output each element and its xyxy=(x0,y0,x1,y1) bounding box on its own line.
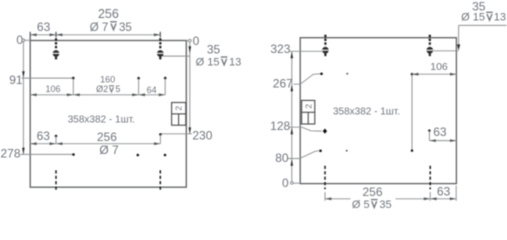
inner dim line xyxy=(30,94,165,96)
tick line 91 xyxy=(22,77,74,79)
origin tick line xyxy=(25,39,30,41)
svg-text:Ø 7: Ø 7 xyxy=(90,22,109,34)
svg-text:63: 63 xyxy=(437,185,451,199)
label dia15 depth13 right note xyxy=(461,12,506,24)
ext line row1 b xyxy=(138,78,140,95)
label dia5 depth35 xyxy=(352,199,392,211)
arrow 106 left xyxy=(30,93,36,96)
leader bolt2 to note xyxy=(163,55,190,57)
ext hole 256 bottom xyxy=(159,134,161,143)
hidden hole bottom right2 xyxy=(429,166,431,190)
ordinate line right panel xyxy=(291,51,293,181)
ext bottom r2 xyxy=(429,192,431,201)
arrow 64 left xyxy=(139,93,145,96)
ext link 106 holes xyxy=(411,74,413,150)
svg-text:35: 35 xyxy=(379,199,391,211)
arrow 63 left xyxy=(30,33,36,36)
blob arrow 128 xyxy=(291,128,294,135)
svg-text:256: 256 xyxy=(362,185,382,199)
ordinate line left xyxy=(22,42,24,155)
blob arrow 278 xyxy=(22,148,25,154)
svg-text:13: 13 xyxy=(494,12,506,24)
hole 63 bottom xyxy=(55,135,58,138)
svg-text:63: 63 xyxy=(37,129,51,143)
svg-text:Ø2: Ø2 xyxy=(96,84,108,94)
arrow 63 right xyxy=(50,33,56,36)
origin circle right xyxy=(189,39,192,42)
svg-text:106: 106 xyxy=(430,61,448,73)
tick line 230 xyxy=(160,133,192,135)
svg-text:256: 256 xyxy=(98,7,119,21)
hole 256 bottom right xyxy=(159,133,162,136)
leader 267 xyxy=(294,74,320,84)
svg-text:323: 323 xyxy=(270,42,290,56)
ext bottom r1 xyxy=(324,192,326,201)
svg-text:358x382 - 1шт.: 358x382 - 1шт. xyxy=(68,114,135,125)
arrow r63 right xyxy=(450,139,456,142)
label dia2 depth5 xyxy=(96,84,120,94)
svg-text:80: 80 xyxy=(275,151,289,165)
marker box right divider xyxy=(302,111,315,113)
note leader from bolt xyxy=(432,50,458,52)
svg-text:91: 91 xyxy=(9,73,23,87)
svg-text:2: 2 xyxy=(174,106,184,111)
panel outline right xyxy=(300,38,456,184)
arrow 106 right xyxy=(67,93,73,96)
note leader arrow xyxy=(457,44,460,50)
svg-text:0: 0 xyxy=(282,176,289,190)
bottom dim line right panel xyxy=(325,198,456,200)
note leader vertical xyxy=(458,25,460,44)
svg-text:230: 230 xyxy=(192,129,212,143)
ext line row1 a xyxy=(72,78,74,95)
panel outline left xyxy=(30,41,186,188)
top dimension line xyxy=(30,34,160,36)
svg-text:2: 2 xyxy=(303,104,313,109)
svg-text:278: 278 xyxy=(0,146,20,160)
extension tick bolt1 xyxy=(55,32,57,38)
svg-text:64: 64 xyxy=(147,85,157,95)
hole row3 right xyxy=(411,149,414,152)
bolt B2 left panel xyxy=(157,38,164,59)
hole 267 xyxy=(320,72,323,75)
blob arrow 323 xyxy=(291,52,294,59)
hidden hole bottom right1 xyxy=(324,166,326,190)
hole 63 top right xyxy=(428,129,431,132)
arrow r63 left xyxy=(430,139,436,142)
svg-text:Ø 5: Ø 5 xyxy=(352,199,370,211)
marker box left xyxy=(172,103,186,126)
svg-text:35: 35 xyxy=(207,42,221,56)
small hole row1 right panel xyxy=(346,73,348,75)
origin circle left xyxy=(22,39,25,42)
origin tick right xyxy=(186,40,188,42)
arrow b256 right xyxy=(154,142,160,145)
arrow rb63 left xyxy=(430,197,436,200)
bolt B2 right panel xyxy=(426,35,433,56)
leader 128 xyxy=(289,127,322,131)
hidden hole bottom left1 xyxy=(55,170,57,191)
extension tick bolt2 xyxy=(159,32,161,38)
label dia7 depth35 xyxy=(90,22,132,34)
blob arrow 230 xyxy=(189,127,192,133)
svg-text:5: 5 xyxy=(115,84,120,94)
arrow 256 right xyxy=(154,33,160,36)
svg-text:160: 160 xyxy=(100,75,115,85)
svg-text:128: 128 xyxy=(270,119,290,133)
svg-text:358x382 - 1шт.: 358x382 - 1шт. xyxy=(333,107,400,118)
origin circle right panel xyxy=(291,182,294,185)
svg-text:256: 256 xyxy=(97,130,117,144)
tick line 323 xyxy=(289,50,323,52)
arrow 106 right xyxy=(450,73,456,76)
hole rowB a xyxy=(72,153,75,156)
svg-text:Ø 7: Ø 7 xyxy=(99,143,119,157)
dim line 63 right xyxy=(429,140,456,142)
arrow 106 left xyxy=(412,73,418,76)
svg-text:106: 106 xyxy=(45,84,60,94)
hidden hole bottom left2 xyxy=(159,170,161,191)
marker box right xyxy=(302,100,315,124)
svg-text:63: 63 xyxy=(37,20,51,34)
bolt B1 right panel xyxy=(322,35,329,56)
dim line 106 xyxy=(412,73,456,75)
arrow 160 right xyxy=(132,93,138,96)
bottom dim line left panel xyxy=(30,143,160,145)
svg-text:63: 63 xyxy=(433,125,447,139)
bolt B1 left panel xyxy=(52,38,59,59)
arrow 160 left xyxy=(74,93,80,96)
svg-text:35: 35 xyxy=(119,22,132,34)
marker box right vsplit xyxy=(307,112,309,124)
label dia15 depth13 left-note xyxy=(196,56,242,68)
marker box left divider xyxy=(172,113,186,115)
hole rowB b xyxy=(137,154,140,157)
origin tick right panel xyxy=(293,182,300,184)
arrow b63 left xyxy=(30,142,36,145)
hole rowB c xyxy=(164,154,167,157)
blob arrow 80 xyxy=(291,159,294,166)
ext bottom r3 xyxy=(455,186,457,201)
arrow b63 right xyxy=(50,142,56,145)
arrow b256 left xyxy=(56,142,62,145)
svg-text:267: 267 xyxy=(273,77,293,91)
hole row1 c xyxy=(164,77,167,80)
blob arrow near 0 right xyxy=(189,46,192,53)
blob arrow 267 xyxy=(291,85,294,92)
arrow rb63 right xyxy=(450,197,456,200)
hole row1 b xyxy=(137,77,140,80)
hole row1 a xyxy=(72,77,75,80)
hole 106 top xyxy=(411,73,414,76)
svg-text:Ø 15: Ø 15 xyxy=(196,56,220,68)
small hole row3 right panel xyxy=(346,150,348,152)
arrow 64 right xyxy=(159,93,165,96)
arrow 256 left xyxy=(56,33,62,36)
svg-text:0: 0 xyxy=(193,34,200,48)
diamond hole 128 xyxy=(323,129,327,134)
extension tick left corner xyxy=(29,32,31,41)
leader 80 xyxy=(288,151,319,159)
arrow rb256 right xyxy=(424,197,430,200)
hole 80 xyxy=(319,149,322,152)
tick line 278 xyxy=(21,153,74,155)
svg-text:13: 13 xyxy=(229,56,241,68)
ext hole 63 bottom xyxy=(55,136,57,144)
ext hole 63 top right xyxy=(428,131,430,141)
arrow rb256 left xyxy=(325,197,331,200)
note underline xyxy=(459,24,507,26)
svg-text:Ø 15: Ø 15 xyxy=(461,12,485,24)
ordinate line right xyxy=(189,42,191,134)
blob arrow 91 xyxy=(22,71,25,78)
marker box left vsplit xyxy=(178,114,180,125)
ext line row1 c xyxy=(164,78,166,95)
